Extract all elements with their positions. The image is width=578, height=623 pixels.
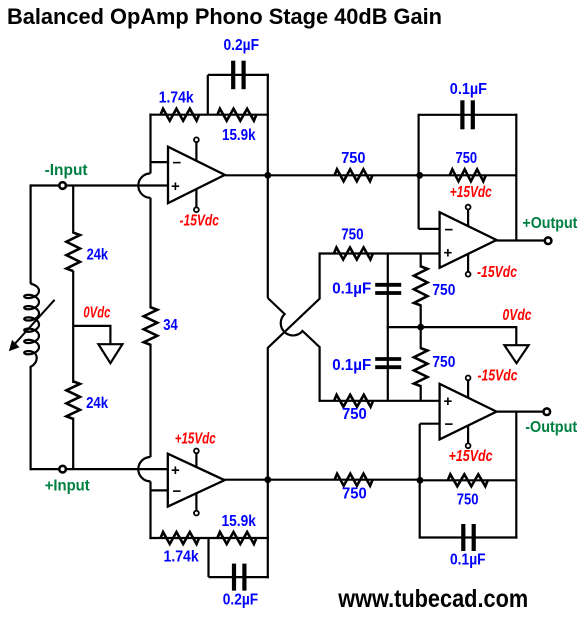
- svg-text:+: +: [171, 178, 180, 195]
- wire far-left vertical upper: [30, 184, 32, 283]
- node U4 feedback dot: [417, 477, 424, 484]
- wire U4 inverting stub: [420, 423, 440, 425]
- ground left: [98, 344, 122, 363]
- arrow variable-inductor: [9, 300, 55, 351]
- svg-text:1.74k: 1.74k: [159, 89, 194, 106]
- svg-text:24k: 24k: [86, 395, 108, 412]
- wire U2 output: [497, 239, 546, 241]
- wire upper vert resistor top stub: [420, 254, 422, 268]
- svg-text:+15Vdc: +15Vdc: [450, 184, 492, 201]
- resistor R10 750 lower mid: [334, 395, 373, 407]
- wire right vertical topright: [515, 114, 517, 241]
- wire upper-left vertical to X: [267, 175, 269, 298]
- svg-text:0Vdc: 0Vdc: [503, 307, 532, 324]
- resistor R13 750 interstage bottom: [335, 474, 373, 486]
- svg-text:750: 750: [341, 227, 363, 244]
- wire feedback column lower: [149, 481, 151, 539]
- wire 24k column middle: [72, 271, 74, 383]
- pin U3 V+ circle: [194, 449, 199, 454]
- resistor R11 750 feedback top: [450, 169, 486, 181]
- svg-text:0.1µF: 0.1µF: [450, 552, 486, 569]
- wire U2 inverting stub: [419, 228, 440, 230]
- capacitor C6 0.2uF bottom: [234, 564, 244, 591]
- wire U4 feedback row: [420, 479, 516, 481]
- resistor R9 750 lower vertical: [414, 348, 428, 386]
- resistor R1 24k upper: [66, 233, 80, 271]
- svg-text:-15Vdc: -15Vdc: [180, 213, 220, 230]
- wire main vertical bottom block: [267, 480, 269, 579]
- wire left vertical topright: [418, 114, 420, 229]
- wire 0.1uF cap row bottomright: [420, 536, 518, 538]
- wire feedback column upper: [149, 114, 151, 174]
- power stem U4 bottom: [467, 426, 469, 444]
- svg-text:+: +: [171, 462, 180, 479]
- svg-text:−: −: [445, 221, 454, 238]
- op-amp U4 triangle: [440, 384, 497, 440]
- wire cap junction vertical top: [207, 75, 209, 115]
- svg-text:www.tubecad.com: www.tubecad.com: [337, 585, 528, 613]
- wire upper cap vertical: [387, 254, 389, 329]
- wire hop over +Input: [138, 457, 150, 481]
- wire 24k column bottom: [72, 418, 74, 470]
- resistor R3 34: [144, 307, 158, 345]
- svg-text:-Output: -Output: [525, 419, 578, 436]
- pin U4 V+ circle: [466, 376, 471, 381]
- pin U1 V- circle: [194, 207, 199, 212]
- wire U1 output row: [225, 174, 420, 176]
- wire cap junction vertical bottom: [207, 538, 209, 577]
- svg-text:0Vdc: 0Vdc: [83, 305, 110, 322]
- wire to U3 inverting input: [151, 489, 168, 491]
- capacitor C3 0.1uF lower mid: [375, 359, 401, 367]
- wire to U1 inverting input: [151, 161, 168, 163]
- svg-text:+: +: [444, 393, 453, 410]
- ground right: [504, 345, 528, 363]
- svg-text:+Input: +Input: [45, 477, 91, 494]
- svg-text:-Input: -Input: [45, 162, 89, 179]
- wire far-left vertical lower: [30, 366, 32, 470]
- power stem U3 top: [195, 453, 197, 467]
- wire lower vert resistor bottom stub: [420, 385, 422, 401]
- node U3 output dot: [264, 476, 271, 483]
- node -Input terminal: [59, 182, 66, 189]
- op-amp U2 triangle: [440, 212, 497, 268]
- svg-text:1.74k: 1.74k: [164, 548, 199, 565]
- wire 1.74k row bottom: [149, 537, 269, 539]
- svg-text:0.1µF: 0.1µF: [450, 81, 487, 98]
- svg-text:+: +: [444, 245, 453, 262]
- power stem U2 top: [467, 209, 469, 226]
- wire lower vert resistor top stub: [420, 327, 422, 349]
- resistor R8 750 upper vertical: [414, 266, 428, 305]
- resistor R4 1.74k top: [161, 109, 200, 121]
- svg-text:0.2µF: 0.2µF: [224, 37, 260, 54]
- wire 0V tap: [73, 326, 110, 344]
- svg-text:750: 750: [341, 150, 365, 167]
- svg-text:0.2µF: 0.2µF: [223, 592, 259, 609]
- pin U2 V- circle: [466, 272, 471, 277]
- resistor R7 750 upper mid: [334, 248, 373, 260]
- capacitor C1 0.2uF top: [233, 61, 243, 89]
- svg-text:15.9k: 15.9k: [222, 513, 256, 530]
- inductor L1 cartridge coil: [24, 283, 39, 367]
- pin U1 V+ circle: [194, 137, 199, 142]
- wire +Input horizontal: [31, 468, 168, 470]
- node -Output terminal: [544, 408, 551, 415]
- svg-text:0.1µF: 0.1µF: [332, 357, 371, 374]
- wire U2 feedback row: [420, 174, 517, 176]
- svg-text:24k: 24k: [87, 247, 109, 264]
- wire 24k column top: [72, 186, 74, 234]
- wire 0.2uF cap row bottom: [209, 576, 269, 578]
- resistor R15 15.9k bottom: [217, 532, 256, 544]
- power stem U1 top: [195, 142, 197, 162]
- power stem U4 top: [467, 380, 469, 398]
- svg-text:750: 750: [432, 354, 455, 371]
- wire upper vert resistor bottom stub: [420, 304, 422, 327]
- wire U2 plus row: [319, 252, 440, 254]
- pin U2 V+ circle: [466, 205, 471, 210]
- svg-text:-15Vdc: -15Vdc: [478, 368, 518, 385]
- pin U4 V- circle: [466, 443, 471, 448]
- wire feedback column mid-lower: [149, 344, 151, 457]
- node +Output terminal: [545, 237, 552, 244]
- svg-text:15.9k: 15.9k: [222, 127, 256, 144]
- wire lower cap vertical: [387, 326, 389, 401]
- svg-text:34: 34: [163, 317, 178, 334]
- resistor R14 1.74k bottom: [161, 532, 200, 544]
- wire diagonal B with hop: [268, 298, 320, 402]
- capacitor C5 0.1uF bottomright: [463, 524, 473, 551]
- capacitor C4 0.1uF topright: [462, 100, 472, 129]
- wire 1.74k row top: [149, 114, 269, 116]
- wire U4 plus row: [319, 400, 440, 402]
- svg-text:+15Vdc: +15Vdc: [449, 448, 493, 465]
- node U2 feedback dot: [416, 172, 423, 179]
- wire diagonal A: [268, 254, 320, 481]
- resistor R12 750 feedback bottom: [448, 474, 488, 486]
- pin U3 V- circle: [194, 511, 199, 516]
- svg-text:−: −: [173, 483, 182, 500]
- wire 0.1uF cap row topright: [419, 114, 518, 116]
- op-amp U1 triangle: [168, 147, 225, 203]
- resistor R5 15.9k top: [217, 109, 256, 121]
- wire right vertical bottomright: [515, 412, 517, 539]
- node mid 0V dot: [417, 324, 424, 331]
- resistor R2 24k lower: [66, 381, 80, 419]
- svg-text:−: −: [173, 155, 182, 172]
- svg-text:0.1µF: 0.1µF: [332, 281, 371, 298]
- svg-text:+Output: +Output: [522, 215, 578, 232]
- resistor R6 750 interstage top: [335, 169, 373, 181]
- svg-text:750: 750: [432, 282, 455, 299]
- wire main vertical top block: [267, 74, 269, 176]
- wire left vertical bottomright: [419, 424, 421, 539]
- wire feedback column mid-upper: [149, 198, 151, 308]
- power stem U2 bottom: [467, 254, 469, 273]
- svg-text:-15Vdc: -15Vdc: [477, 264, 517, 281]
- wire mid 0V row: [388, 327, 517, 345]
- capacitor C2 0.1uF upper mid: [375, 285, 401, 293]
- op-amp U3 triangle: [168, 454, 225, 507]
- svg-text:750: 750: [457, 492, 479, 509]
- power stem U1 bottom: [195, 189, 197, 208]
- svg-text:750: 750: [456, 150, 478, 167]
- svg-text:Balanced OpAmp Phono Stage 40d: Balanced OpAmp Phono Stage 40dB Gain: [7, 4, 442, 29]
- wire hop over -Input: [138, 173, 150, 197]
- svg-text:750: 750: [342, 406, 367, 423]
- wire 0.2uF cap row top: [208, 74, 269, 76]
- wire -Input horizontal: [31, 184, 168, 186]
- svg-text:750: 750: [342, 486, 367, 503]
- svg-text:+15Vdc: +15Vdc: [175, 430, 216, 447]
- node +Input terminal: [59, 466, 66, 473]
- svg-text:−: −: [445, 416, 454, 433]
- wire U4 output: [497, 411, 544, 413]
- node U1 output dot: [264, 172, 271, 179]
- power stem U3 bottom: [195, 493, 197, 511]
- wire U3 output row: [225, 479, 420, 481]
